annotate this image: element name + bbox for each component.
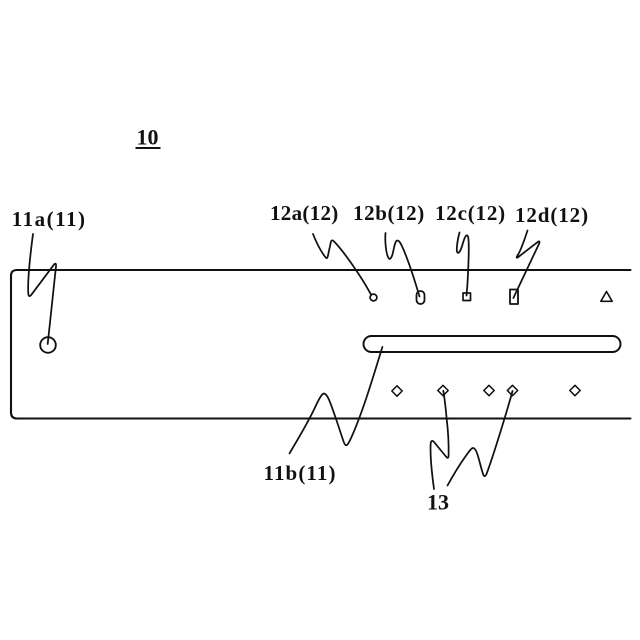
leader line 12c — [457, 233, 469, 296]
hole 12b (small oval) — [417, 291, 425, 304]
svg-text:13: 13 — [427, 490, 449, 515]
svg-text:10: 10 — [137, 125, 159, 150]
hole 12c (small square) — [463, 293, 471, 301]
leader line 12b — [385, 233, 419, 297]
hole 12a (small circle) — [370, 294, 377, 301]
triangle hole — [601, 292, 612, 302]
leader line 13 left — [431, 391, 449, 489]
diamond 5 — [570, 385, 580, 395]
leader line 11a — [28, 234, 56, 344]
diamond 4 — [507, 385, 517, 395]
svg-text:11b(11): 11b(11) — [264, 461, 337, 485]
svg-text:12b(12): 12b(12) — [353, 201, 425, 225]
svg-text:11a(11): 11a(11) — [12, 207, 87, 231]
leader line 11b — [290, 347, 383, 454]
hole 12d (small rectangle) — [510, 290, 518, 305]
plate outline (part 10) — [11, 270, 631, 419]
diamond 3 — [484, 385, 494, 395]
leader line 12a — [313, 234, 371, 294]
slot 11b — [364, 336, 621, 352]
hole 11a — [40, 337, 56, 353]
leader line 13 right — [448, 391, 513, 486]
svg-text:12a(12): 12a(12) — [270, 201, 339, 225]
leader line 12d — [513, 231, 539, 299]
diamond 2 — [438, 385, 448, 395]
diamond 1 — [392, 386, 402, 396]
svg-text:12c(12): 12c(12) — [435, 201, 506, 225]
underline of 10 — [136, 147, 161, 149]
svg-text:12d(12): 12d(12) — [515, 203, 589, 227]
